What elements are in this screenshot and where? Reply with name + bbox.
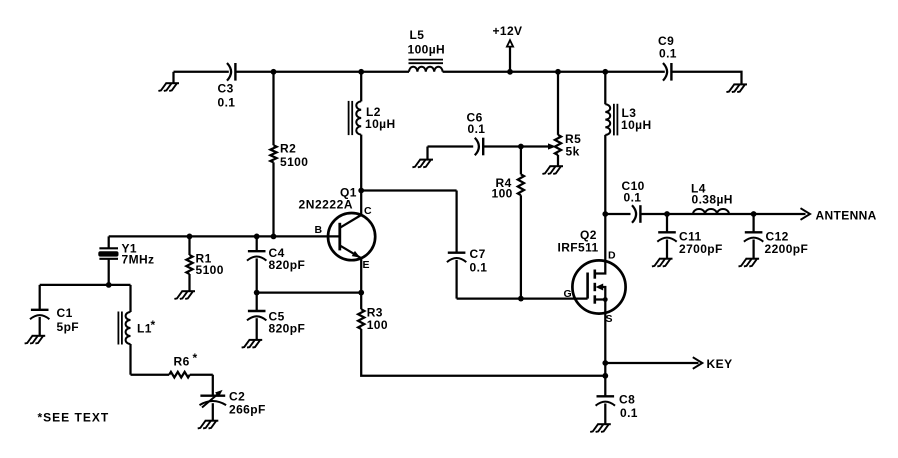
pin B [315,224,323,236]
power +12V [493,24,523,75]
capacitor C7 [447,191,487,299]
node gate-R4 junction [518,296,524,302]
wire to KEY [605,362,698,364]
ground C1 [25,336,46,344]
node rail-R5 junction [555,69,561,75]
resistor R1 [186,236,223,291]
svg-text:C2: C2 [229,390,245,404]
label 2N2222A [299,198,354,212]
wire collector to C7 [361,189,456,191]
svg-text:0.1: 0.1 [620,406,638,420]
transistor Q1 emitter lead [340,245,361,258]
capacitor C1 [30,285,79,336]
svg-text:R6: R6 [174,355,190,369]
label IRF511 [558,241,599,255]
svg-text:*: * [193,351,198,365]
svg-text:R2: R2 [280,142,296,156]
pin C [364,205,372,217]
resistor R2 [270,72,308,237]
capacitor C5 [247,293,305,340]
resistor R3 [358,306,388,333]
svg-text:266pF: 266pF [229,403,266,417]
wire L3 to drain node [604,135,606,214]
svg-text:C: C [364,205,372,217]
node emitter junction [358,290,364,296]
arrow antenna [801,208,811,220]
svg-text:*SEE TEXT: *SEE TEXT [38,411,110,425]
svg-text:E: E [363,259,370,271]
svg-text:0.1: 0.1 [218,96,236,110]
wire Y1 node horizontal [40,284,131,286]
node C11 junction [664,211,670,217]
node base-C4 [254,234,260,240]
capacitor C9 [658,34,677,81]
node C12 junction [751,211,757,217]
svg-text:KEY: KEY [707,357,733,371]
svg-text:+12V: +12V [493,24,523,38]
svg-text:100µH: 100µH [408,43,446,57]
svg-text:G: G [564,288,573,300]
wire rail L5 to C9 [443,71,665,73]
pin D [608,250,616,262]
capacitor C11 [657,214,722,259]
svg-text:C8: C8 [619,393,635,407]
wire C10 to antenna [641,213,806,215]
node rail-L3 junction [602,69,608,75]
svg-text:0.1: 0.1 [470,261,488,275]
transistor Q1 collector lead [340,215,361,228]
svg-text:*: * [151,318,156,332]
svg-text:0.1: 0.1 [659,47,677,61]
svg-text:7MHz: 7MHz [122,253,155,267]
svg-text:IRF511: IRF511 [558,241,599,255]
inductor L1 [118,285,155,375]
transistor Q2 body [572,260,625,313]
svg-text:5k: 5k [566,145,580,159]
capacitor C12 [744,214,808,259]
svg-text:B: B [315,224,323,236]
wire C6 left [428,145,474,147]
capacitor C6 [467,111,486,156]
svg-text:820pF: 820pF [269,258,306,272]
svg-text:5100: 5100 [280,155,308,169]
node base-R1 [187,234,193,240]
svg-text:10µH: 10µH [365,117,396,131]
svg-text:S: S [606,313,613,325]
pin E [363,259,370,271]
transistor Q2 body arrow [596,284,606,300]
wire R3 to source node [361,329,605,376]
crystal Y1 [98,236,154,285]
transistor Q2 gate bar [586,273,589,299]
arrow KEY [693,357,703,369]
inductor L5 [408,28,446,72]
resistor R6 [131,351,213,378]
node C4-C5 junction [254,290,260,296]
svg-text:0.1: 0.1 [624,191,642,205]
transistor Q2 source lead [595,297,608,363]
svg-text:2200pF: 2200pF [765,242,809,256]
wire C5 node to emitter node [257,291,362,293]
ground right rail [726,84,747,92]
label Q2 [580,228,597,242]
ground R1 [174,291,195,299]
svg-text:ANTENNA: ANTENNA [816,209,877,223]
wire rail C9 to ground [672,72,742,84]
svg-text:100: 100 [367,318,388,332]
node C6-R4 junction [518,144,524,150]
label KEY [707,357,733,371]
svg-text:L5: L5 [410,28,425,42]
wire base line [109,235,340,237]
pin S [606,313,613,325]
label Q1 [340,186,357,200]
capacitor C10 [622,179,645,223]
svg-text:820pF: 820pF [269,322,306,336]
ground C5 [242,340,263,348]
node source-KEY junction [602,360,608,366]
svg-text:10µH: 10µH [621,118,652,132]
label ANTENNA [816,209,877,223]
wire L2 to Q1 collector [360,135,362,215]
inductor L4 [691,182,733,215]
node base-R2 [271,234,277,240]
svg-text:2700pF: 2700pF [679,242,723,256]
ground C6 [412,147,433,168]
ground C2 [198,421,219,429]
ground left rail [158,72,179,91]
svg-text:0.1: 0.1 [468,122,486,136]
svg-text:5100: 5100 [196,263,224,277]
node source-R3 junction [602,373,608,379]
capacitor C4 [247,236,305,292]
node drain junction [602,211,608,217]
note see text [38,411,110,425]
svg-text:5pF: 5pF [57,320,80,334]
wire C6 to R5 wiper [484,145,548,147]
node Y1 bottom junction [106,282,112,288]
pin G [564,288,573,300]
transistor Q1 body [328,213,375,260]
wire Q1 emitter down [360,258,362,309]
wire rail C3 to L5 [236,71,409,73]
capacitor C8 [596,363,638,424]
transistor Q2 drain lead [595,214,606,274]
node rail-L2 junction [358,69,364,75]
svg-text:100: 100 [492,187,513,201]
potentiometer R5 [548,72,581,166]
node collector junction [358,188,364,194]
svg-text:0.38µH: 0.38µH [692,193,733,207]
ground C12 [739,259,760,267]
svg-text:2N2222A: 2N2222A [299,198,354,212]
wire C7 to gate [457,297,588,299]
ground C8 [590,424,611,432]
ground C11 [652,259,673,267]
svg-text:C3: C3 [218,82,234,96]
svg-text:D: D [608,250,616,262]
svg-text:C1: C1 [57,306,73,320]
capacitor C3 [218,63,236,110]
node rail-R2 junction [271,69,277,75]
svg-text:C7: C7 [470,247,486,261]
transistor Q2 channel [593,270,596,304]
resistor R4 [492,147,525,299]
inductor L3 [605,72,651,136]
capacitor C2 variable [200,375,266,421]
ground R5 [542,166,563,174]
wire drain to C10 [605,213,630,215]
inductor L2 [349,72,396,135]
wire top rail left segment [174,71,229,73]
